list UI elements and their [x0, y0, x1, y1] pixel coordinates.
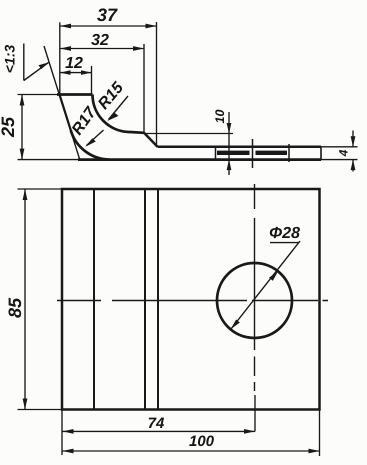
R17 leader and arrow	[87, 130, 104, 146]
dimension 32: line, arrows, extension	[60, 48, 144, 50]
diameter leader: diagonal line through hole, arrows, shelf	[231, 241, 300, 329]
side view: hole axis tick	[252, 139, 254, 168]
side view: plate bottom surface (with thin extensions both sides)	[18, 159, 81, 161]
plan view: projected step top corner edge	[144, 189, 146, 410]
side view: top edge of vertical leg (with thin extension to left)	[18, 94, 61, 96]
dim text 12	[65, 57, 82, 68]
side view: hidden hole thick dashes	[217, 151, 287, 155]
dim text 25	[1, 117, 14, 138]
side view: hidden hole left edge	[215, 147, 217, 160]
side view: plate right end edge	[320, 147, 322, 160]
dim text 10	[215, 110, 224, 124]
hole diameter text F28	[270, 227, 300, 238]
taper text 1:3	[5, 45, 15, 72]
side view: upper shelf top surface	[130, 131, 144, 135]
side view: R17 fillet arc (slant into bottom plate)	[71, 131, 110, 160]
dimension 85: extension lines, dim line, arrows	[18, 188, 63, 190]
side view: R15 fillet arc (leg right face into upper shelf)	[93, 95, 131, 133]
side view: step chamfer down to thin plate	[144, 133, 158, 147]
side view: extension line for dim 4 (top)	[321, 146, 358, 148]
R15 leader and arrow	[109, 96, 129, 120]
dimension 25: line, arrows	[21, 95, 23, 160]
radius text R17	[71, 105, 97, 136]
dimension 12: line, arrows, extension	[60, 72, 92, 74]
dimension 10: extension line, dim line, arrows	[144, 133, 233, 135]
dimension 4: dim line, arrows	[352, 131, 354, 172]
side view: thin plate top surface	[158, 146, 322, 149]
plan view: hole vertical centerline (dash-dot)	[254, 184, 256, 391]
dim text 74	[149, 418, 164, 428]
plan view: horizontal centerline (dash-dot)	[57, 300, 328, 302]
dimension 37: line, arrows, extension lines	[60, 25, 157, 27]
taper callout 1:3: reference line and leader arrow	[23, 44, 25, 81]
dimension 74: extension, dim line, arrows	[61, 410, 63, 456]
plan view: outline rectangle	[62, 189, 320, 410]
dim text 32	[91, 34, 109, 45]
dim text 85	[8, 298, 21, 318]
side view: hidden hole right edge	[288, 144, 290, 162]
plan view: hole circle	[217, 263, 292, 338]
radius text R15	[97, 81, 124, 111]
dim text 37	[97, 8, 118, 21]
dim text 100	[189, 436, 214, 447]
side view: tapered left face (1:3 slant, thin construction line full length)	[44, 46, 80, 159]
dimension 100: extension, dim line, arrows	[319, 410, 321, 457]
dim text 4	[339, 150, 347, 157]
plan view: projected edge of leg top width	[93, 189, 95, 410]
plan view: projected step bottom corner edge	[157, 189, 159, 410]
